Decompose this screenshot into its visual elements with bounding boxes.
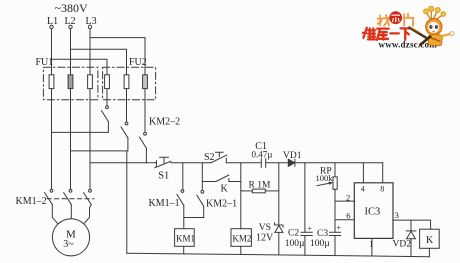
wire L1 vertical [51, 29, 53, 189]
relay K box [420, 229, 440, 248]
switch S1 actuator [160, 157, 169, 163]
svg-text:K: K [221, 183, 229, 194]
fuse FU2-b [124, 75, 129, 89]
svg-text:VD2: VD2 [393, 240, 412, 250]
mascot mouth [433, 30, 435, 32]
wire control return [126, 151, 128, 253]
contact KM1-2 b blade [64, 193, 72, 205]
mascot antennae [427, 11, 443, 20]
wire KM2-2 a output [52, 122, 109, 133]
svg-text:+: + [337, 223, 342, 232]
svg-text:S1: S1 [158, 171, 169, 182]
switch S1 tick [155, 161, 157, 166]
switch S2 tick [225, 158, 227, 162]
wire C3 down [334, 236, 336, 256]
mascot strap [429, 37, 440, 41]
wire branch KM1-1 [182, 163, 184, 190]
switch S2 blade [211, 155, 227, 163]
potentiometer RP [333, 177, 337, 189]
wire KM2-2 c output [145, 148, 147, 163]
contact KM1-2 b circle [69, 189, 72, 192]
motor M circle [52, 219, 89, 256]
coil KM1 box [175, 229, 195, 247]
coil KM2 box [231, 229, 251, 247]
wire L1 branch to FU2 [52, 59, 108, 105]
zener VS [275, 223, 283, 228]
wire KM1-1 output [183, 205, 185, 228]
switch S2 actuator [215, 152, 223, 156]
wire K to branch [229, 181, 241, 183]
wire branch C2 [304, 163, 306, 232]
wire pin 6 [335, 219, 354, 221]
contact KM2-2 c blade [140, 137, 147, 148]
wire L3 branch to FU2 [90, 38, 145, 133]
svg-text:C2: C2 [288, 229, 299, 239]
wire branch VS [278, 163, 280, 225]
svg-text:4: 4 [361, 184, 365, 193]
contact KM2-1 blade [197, 195, 204, 206]
fuse box FU1 (dashed) [43, 67, 98, 99]
svg-text:6: 6 [346, 210, 350, 220]
contact KM2-1 circle [201, 190, 204, 193]
logo [363, 6, 454, 50]
contact KM1-2 a blade [45, 193, 53, 205]
resistor R 1M [252, 189, 265, 193]
wire motor b [70, 205, 72, 220]
svg-text:3: 3 [395, 210, 399, 220]
svg-text:R 1M: R 1M [249, 181, 271, 191]
diode VD1 [288, 159, 294, 166]
mascot head [426, 19, 442, 35]
svg-text:IC3: IC3 [365, 206, 381, 217]
mechanical link dashes [47, 198, 94, 200]
svg-text:100µ: 100µ [310, 239, 330, 249]
wire C1 to VD1 [266, 162, 288, 164]
svg-text:FU2: FU2 [129, 57, 147, 68]
svg-text:KM1–1: KM1–1 [149, 198, 180, 209]
svg-text:8: 8 [380, 185, 384, 194]
svg-text:~380V: ~380V [55, 1, 88, 15]
mascot right arm [442, 34, 451, 36]
switch S1 blade [155, 161, 171, 167]
svg-text:12V: 12V [256, 233, 274, 244]
wire KM2-1 output [203, 206, 205, 217]
fuse FU2-a [105, 75, 110, 89]
fuse FU1-b [68, 75, 73, 89]
mascot telescope arm [420, 37, 430, 45]
mascot balls [424, 6, 446, 16]
wire K down [428, 248, 430, 256]
svg-text:KM2–1: KM2–1 [206, 199, 237, 210]
svg-text:VS: VS [259, 223, 271, 233]
wire branch KM2-1 [201, 163, 203, 191]
wire bottom bus [127, 253, 430, 257]
svg-text:0.47µ: 0.47µ [252, 149, 273, 159]
fuse FU1-c [88, 75, 93, 89]
svg-text:KM1–2: KM1–2 [16, 196, 47, 207]
contact KM1-2 a circle [50, 189, 53, 192]
contact KM1-1 blade [177, 194, 184, 205]
wire KM2-2 b output [71, 138, 128, 151]
wire VS down [278, 232, 280, 255]
svg-text:C3: C3 [317, 229, 328, 239]
fuse FU2-c [143, 75, 148, 89]
wire pin 2 [335, 200, 354, 202]
wire L2 vertical [70, 29, 72, 189]
wire pin 8 [382, 163, 384, 183]
terminal L3 [88, 25, 91, 28]
wire L2 branch to FU2 [71, 49, 127, 122]
svg-text:+: + [308, 224, 313, 233]
contact K blade [216, 175, 229, 181]
wire bus right [295, 162, 383, 164]
wire motor c [85, 205, 92, 224]
diode VD2 [410, 220, 412, 231]
capacitor C1 plates [261, 159, 265, 168]
resistor R lead left [241, 190, 253, 192]
wire VD2 down [410, 239, 412, 257]
contact K tick [228, 178, 230, 181]
contact KM2-2 b blade [121, 127, 128, 138]
svg-text:1: 1 [369, 240, 373, 249]
wire coil connector [184, 217, 204, 219]
wire L3 vertical [89, 29, 91, 189]
fuse box FU2 (dashed) [103, 67, 156, 99]
svg-text:K: K [426, 235, 434, 246]
contact KM2-2 a circle [106, 106, 109, 109]
mascot face [428, 22, 439, 33]
svg-text:KM1: KM1 [176, 234, 195, 244]
svg-text:VD1: VD1 [283, 151, 302, 161]
svg-text:KM2: KM2 [232, 234, 251, 244]
svg-text:S2: S2 [204, 152, 215, 163]
contact KM2-2 c circle [144, 132, 147, 135]
wire branch KM2 coil [240, 163, 242, 229]
svg-text:100µ: 100µ [285, 239, 305, 249]
mascot body [428, 34, 442, 46]
capacitor C2 plates [301, 232, 312, 235]
wire pin 3 [393, 220, 431, 229]
terminal L2 [69, 25, 72, 28]
fuse FU1-a [49, 75, 54, 89]
svg-text:2: 2 [346, 192, 350, 202]
wire branch RP [334, 163, 336, 177]
logo char pian [404, 14, 414, 26]
contact KM2-2 a blade [102, 111, 109, 122]
logo pencil [410, 28, 430, 40]
svg-text:3~: 3~ [63, 239, 74, 250]
wire bus S2 to C1 [226, 162, 260, 164]
capacitor C3 plates [330, 232, 341, 235]
mascot hand [450, 32, 454, 36]
contact KM1-1 circle [181, 190, 184, 193]
terminal L1 [50, 25, 53, 28]
svg-text:FU1: FU1 [36, 57, 54, 68]
wire control bus left [90, 162, 156, 164]
contact KM2-2 b circle [125, 122, 128, 125]
svg-text:100k: 100k [316, 173, 334, 183]
logo text weikuyixia [363, 28, 410, 40]
wire KM1 down [183, 246, 185, 254]
contact KM1-2 c circle [89, 189, 92, 192]
contact KM1-2 c blade [84, 193, 92, 205]
resistor R lead right [265, 190, 279, 192]
contact K line [202, 181, 216, 183]
wire RP down [334, 189, 336, 232]
wire C2 down [304, 236, 306, 256]
logo char zhao [377, 15, 389, 26]
svg-text:KM2–2: KM2–2 [149, 117, 180, 128]
IC3 box [354, 183, 393, 239]
wire pin 4 [362, 163, 364, 183]
wire KM2 down [240, 246, 242, 254]
potentiometer RP arrow [317, 183, 331, 186]
mascot eyes [429, 25, 432, 29]
wire bus S1 to S2 [171, 162, 211, 164]
wire motor a [52, 205, 57, 224]
logo heart xin [389, 11, 402, 24]
wire pin 1 [371, 238, 373, 256]
